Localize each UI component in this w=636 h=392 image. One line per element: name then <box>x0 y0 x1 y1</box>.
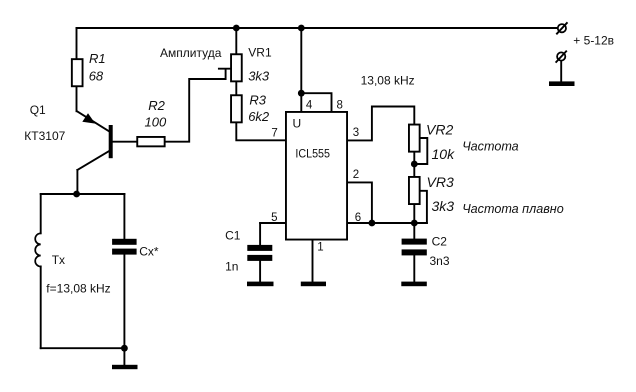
wire C1 bottom lead <box>259 261 261 282</box>
svg-text:Частота: Частота <box>462 140 519 154</box>
node pin2-pin6 <box>369 220 376 227</box>
wire Q1 base lead <box>112 141 136 143</box>
capacitor C1 plates <box>247 245 272 251</box>
wire tank left upper <box>40 194 42 233</box>
transistor Q1 emitter arrow <box>82 113 95 123</box>
wire tank ground lead <box>123 348 125 365</box>
terminal ground <box>557 52 565 60</box>
svg-text:13,08 kHz: 13,08 kHz <box>361 74 415 88</box>
svg-text:3: 3 <box>353 127 359 139</box>
svg-text:3k3: 3k3 <box>248 69 270 84</box>
wire Cx bottom lead <box>123 255 125 349</box>
capacitor Cx plates <box>112 239 137 245</box>
node tank-ground <box>121 345 128 352</box>
svg-text:6: 6 <box>355 212 361 224</box>
svg-text:R1: R1 <box>89 51 106 66</box>
wire pin 3 to VR2 top <box>348 107 414 141</box>
svg-text:VR2: VR2 <box>426 122 453 138</box>
svg-text:Амплитуда: Амплитуда <box>160 46 222 60</box>
wire C1 top lead <box>259 223 261 245</box>
svg-text:ICL555: ICL555 <box>295 146 330 160</box>
wire R2 right to VR1 wiper <box>166 69 231 142</box>
wire top supply rail <box>77 27 558 29</box>
svg-text:3n3: 3n3 <box>430 254 450 268</box>
ground C2 <box>401 282 427 287</box>
potentiometer VR1 <box>231 54 242 81</box>
wire tank right upper <box>123 194 125 239</box>
svg-text:1: 1 <box>317 241 323 253</box>
transistor Q1 base bar <box>109 125 113 158</box>
svg-text:7: 7 <box>271 128 277 140</box>
svg-text:VR1: VR1 <box>248 46 272 60</box>
node pins 4-8 split <box>298 90 305 97</box>
svg-text:КТ3107: КТ3107 <box>24 129 65 143</box>
ground tank <box>112 365 138 369</box>
potentiometer VR2 <box>409 125 420 152</box>
wire Q1 collector diagonal <box>77 151 109 170</box>
svg-text:Q1: Q1 <box>30 103 46 117</box>
wire pin 5 lead <box>260 222 285 224</box>
wire terminal 2 ground lead <box>560 61 562 81</box>
svg-text:Cx*: Cx* <box>139 245 159 259</box>
wire VR1 to R3 <box>235 82 237 94</box>
svg-text:R2: R2 <box>148 98 165 113</box>
wire supply to pin 4 <box>300 28 302 111</box>
wire C2 top lead <box>413 223 415 239</box>
wire C2 bottom lead <box>413 255 415 281</box>
node pin6-C2 <box>411 220 418 227</box>
svg-text:8: 8 <box>337 100 343 112</box>
svg-text:C2: C2 <box>432 234 448 248</box>
wire branch to pin 8 <box>301 93 331 111</box>
ground pin 1 <box>301 282 326 287</box>
IC U1 ICL555 timer body <box>286 112 347 240</box>
svg-text:+ 5-12в: + 5-12в <box>573 34 614 48</box>
svg-text:2: 2 <box>353 169 359 181</box>
svg-text:Частота плавно: Частота плавно <box>462 202 564 216</box>
wire R1 top lead <box>76 28 78 58</box>
wire VR3 bottom <box>413 205 415 223</box>
wire Q1 collector vertical <box>76 170 78 194</box>
node collector-tank <box>73 191 80 198</box>
capacitor C2 plates <box>402 239 427 245</box>
svg-text:U: U <box>293 116 302 130</box>
svg-text:f=13,08 kHz: f=13,08 kHz <box>46 282 110 296</box>
svg-text:1n: 1n <box>225 260 238 274</box>
svg-text:10k: 10k <box>432 146 456 162</box>
wire Q1 emitter diagonal <box>77 111 110 131</box>
svg-text:5: 5 <box>271 212 277 224</box>
node rail-555 supply <box>298 25 305 32</box>
node rail-VR1 <box>233 25 240 32</box>
svg-text:R3: R3 <box>249 93 266 108</box>
inductor Tx coil <box>35 233 41 266</box>
ground C1 <box>247 282 274 287</box>
wire tank left lower <box>40 267 42 349</box>
wire tank bottom <box>41 347 125 349</box>
resistor R3 <box>231 95 242 122</box>
wire pin 6 net <box>348 222 427 224</box>
wire R3 bottom to pin 7 <box>236 123 285 140</box>
ground terminal bar <box>549 81 575 86</box>
wire VR1 top lead <box>235 28 237 53</box>
svg-text:VR3: VR3 <box>427 174 454 190</box>
terminal +5-12v <box>558 24 566 32</box>
wire pin 1 ground lead <box>312 241 314 282</box>
potentiometer VR3 <box>409 177 420 204</box>
svg-text:Tx: Tx <box>52 253 65 267</box>
wire R1 bottom lead <box>76 87 78 111</box>
svg-text:6k2: 6k2 <box>248 109 270 124</box>
resistor R2 <box>137 137 164 146</box>
svg-text:3k3: 3k3 <box>432 198 455 214</box>
wire tank top <box>41 193 125 195</box>
svg-text:4: 4 <box>306 100 313 112</box>
node VR2-VR3 junction <box>411 161 418 168</box>
svg-text:68: 68 <box>89 69 104 84</box>
wire pin 2 down to pin 6 net <box>348 182 372 223</box>
wire VR2 wiper <box>414 138 427 164</box>
wire VR2 bottom to VR3 top <box>413 153 415 176</box>
wire VR3 wiper <box>421 191 427 223</box>
svg-text:100: 100 <box>145 115 167 130</box>
resistor R1 <box>72 59 83 86</box>
svg-text:C1: C1 <box>225 228 241 242</box>
